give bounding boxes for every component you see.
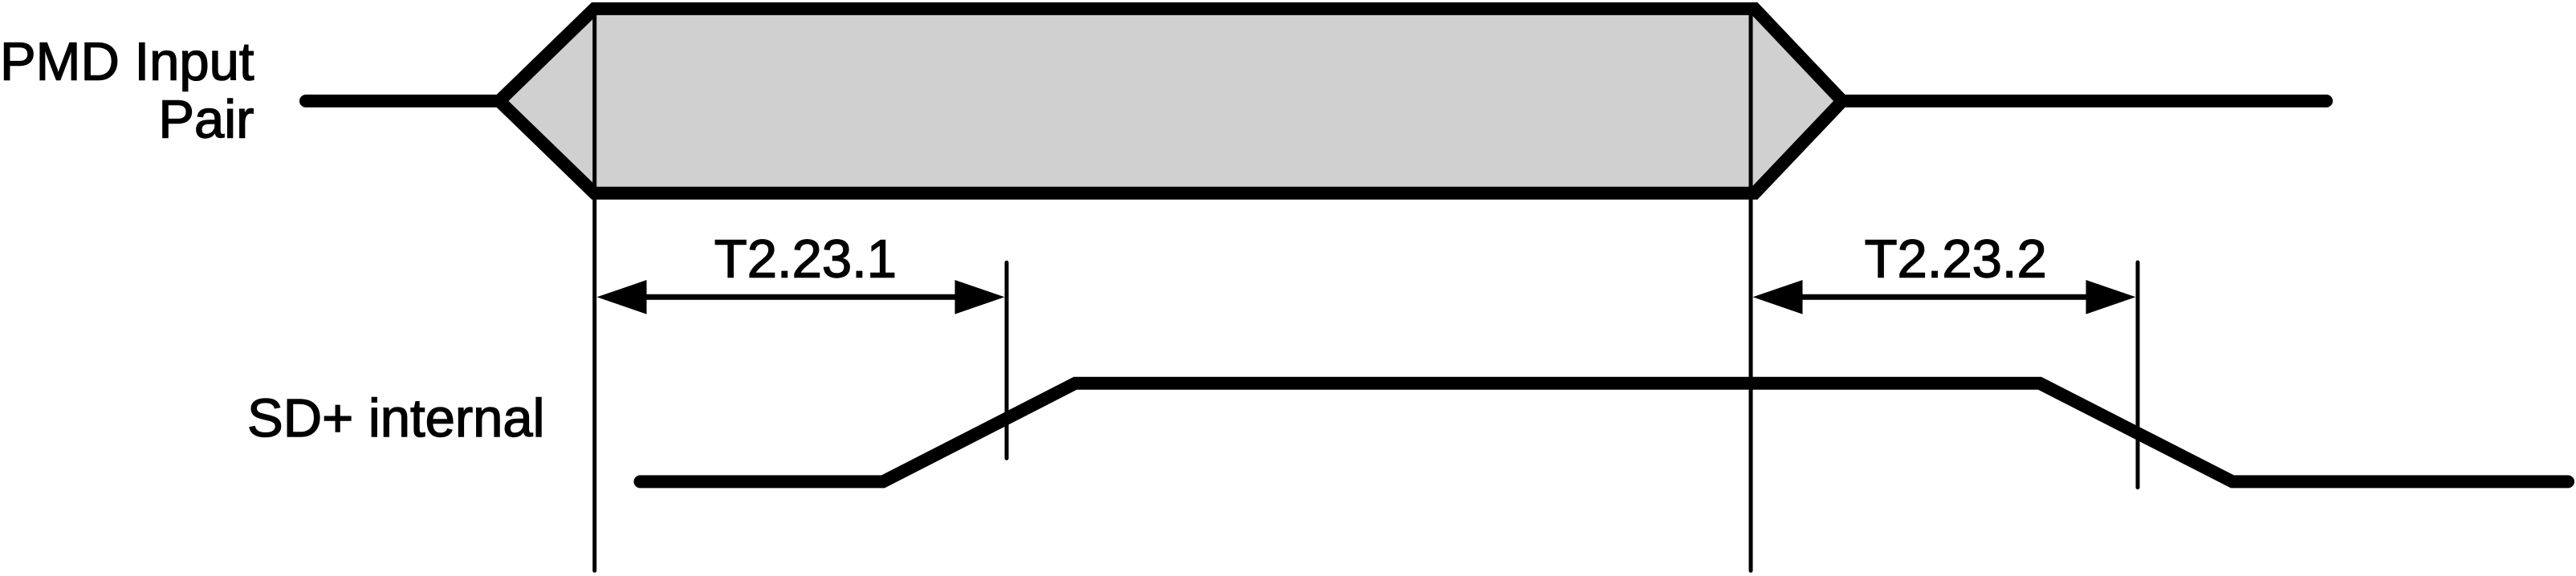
svg-text:Pair: Pair [158, 90, 254, 150]
svg-text:T2.23.1: T2.23.1 [714, 229, 897, 290]
svg-text:PMD Input: PMD Input [0, 31, 254, 91]
svg-text:T2.23.2: T2.23.2 [1865, 229, 2047, 290]
svg-text:SD+ internal: SD+ internal [247, 388, 545, 448]
